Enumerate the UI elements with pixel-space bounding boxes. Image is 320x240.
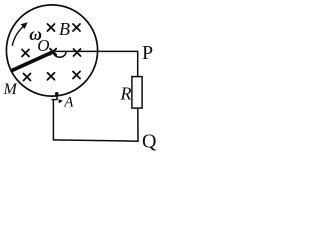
magnetic field cross 7 [48,73,55,80]
field boundary circle [6,5,97,96]
rotation arrow omega [12,22,27,46]
brush arrow at A [58,99,63,103]
rod OM [11,51,54,71]
wire resistor to Q corner [137,108,139,141]
svg-text:M: M [3,81,19,98]
wire P down to resistor [137,51,139,77]
bottom wire Q to A side [53,140,139,141]
svg-text:O: O [37,36,49,55]
magnetic field cross 3 [22,50,29,57]
svg-text:R: R [120,84,132,104]
magnetic field cross 6 [24,74,31,81]
magnetic field cross 2 [73,24,80,31]
svg-text:P: P [142,42,153,64]
magnetic field cross 8 [73,72,80,79]
brush hook at axle O [54,52,67,57]
svg-text:B: B [59,19,70,39]
magnetic field cross 1 [48,24,55,31]
wire O to P [54,50,138,52]
magnetic field cross 5 [74,49,81,56]
resistor R [132,77,142,109]
svg-text:Q: Q [142,131,157,153]
magnetic field cross 4 (at axle) [50,49,56,55]
left wire up to brush at A [52,95,58,141]
contact dot A [55,92,59,96]
svg-text:A: A [63,95,74,111]
